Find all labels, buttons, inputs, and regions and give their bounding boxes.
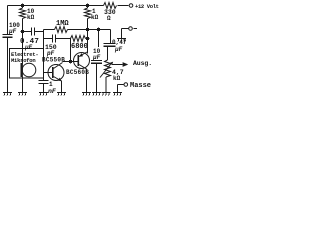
ground Q1 xyxy=(57,93,66,96)
ground Q2 xyxy=(82,93,91,96)
svg-text:Ω: Ω xyxy=(107,15,111,22)
svg-text:1MΩ: 1MΩ xyxy=(56,20,69,28)
wire to input cap xyxy=(23,31,32,33)
wire 150p left xyxy=(44,38,53,40)
ground xyxy=(3,93,12,96)
wire wiper to output arrow xyxy=(112,64,123,66)
electret mic symbol xyxy=(21,63,36,77)
svg-text:0,47: 0,47 xyxy=(112,39,127,46)
transistor Q2 BC560B xyxy=(74,52,90,69)
svg-text:kΩ: kΩ xyxy=(27,14,35,21)
node A rail junction left xyxy=(21,4,24,7)
svg-text:µF: µF xyxy=(114,46,123,53)
ground 10uF xyxy=(92,93,101,96)
resistor 10k xyxy=(22,6,24,9)
svg-text:Ausg.: Ausg. xyxy=(133,60,152,67)
wire 10uF column xyxy=(98,30,100,48)
wire Q2 collector to ground xyxy=(86,69,88,93)
resistor 1M xyxy=(55,27,68,33)
svg-text:nF: nF xyxy=(48,88,57,95)
svg-text:6800: 6800 xyxy=(71,43,88,51)
wire mic column xyxy=(22,19,24,64)
wire left branch to ground xyxy=(7,38,9,93)
wire 1k to node line xyxy=(87,19,89,54)
capacitor 0.47uF out xyxy=(104,43,116,45)
svg-text:µF: µF xyxy=(24,44,33,51)
node mic/cap junction xyxy=(21,30,24,33)
capacitor 100uF xyxy=(3,34,13,36)
ground Masse xyxy=(113,93,122,96)
wire rail after 330 to terminal xyxy=(118,5,129,7)
wire cap to pot xyxy=(107,47,109,60)
ground 1nF xyxy=(39,93,48,96)
svg-text:BC560B: BC560B xyxy=(66,69,89,76)
wire 0.47 out corner xyxy=(110,30,112,44)
ground mic xyxy=(18,93,27,96)
svg-text:kΩ: kΩ xyxy=(113,75,121,82)
resistor 330 Ohm xyxy=(104,3,117,9)
resistor 6800 xyxy=(71,36,86,42)
wire 6800 to T2 emitter column xyxy=(86,38,88,40)
svg-text:+12 Volt: +12 Volt xyxy=(135,3,159,10)
capacitor 0.47uF input xyxy=(31,28,33,36)
wire top rail xyxy=(8,5,104,7)
capacitor 10uF xyxy=(91,60,102,62)
svg-text:µF: µF xyxy=(92,54,101,61)
ground minus terminal xyxy=(117,39,126,42)
svg-text:Mikrofon: Mikrofon xyxy=(11,57,35,64)
wire node line xyxy=(68,29,111,31)
resistor 1k xyxy=(87,6,89,9)
wire 150p right xyxy=(56,38,71,40)
wire Masse terminal xyxy=(118,84,124,86)
ground pot xyxy=(102,93,111,96)
wire Q1 collector to node xyxy=(63,61,78,63)
node B rail junction right xyxy=(86,4,89,7)
wire left branch down xyxy=(7,6,9,35)
svg-text:BC550B: BC550B xyxy=(42,57,65,64)
wire cap to base node xyxy=(35,31,44,33)
arrow Ausg. xyxy=(123,62,129,67)
svg-text:µF: µF xyxy=(8,28,17,35)
wire mic to ground xyxy=(22,77,24,93)
mic box xyxy=(10,49,44,79)
wire Q1 emitter to ground xyxy=(61,81,63,93)
wire minus terminal xyxy=(122,28,129,30)
svg-text:1: 1 xyxy=(49,81,53,88)
wire base node horizontal xyxy=(44,29,55,31)
terminal +12 Volt xyxy=(129,4,133,8)
svg-text:kΩ: kΩ xyxy=(91,14,99,21)
potentiometer 4.7k xyxy=(105,60,111,77)
wire base node vertical xyxy=(43,30,45,73)
transistor Q1 BC550B xyxy=(44,63,65,82)
capacitor 150pF xyxy=(52,35,54,43)
capacitor 1nF xyxy=(43,73,45,81)
svg-text:Masse: Masse xyxy=(130,82,151,90)
node junctions on node line xyxy=(86,28,89,31)
